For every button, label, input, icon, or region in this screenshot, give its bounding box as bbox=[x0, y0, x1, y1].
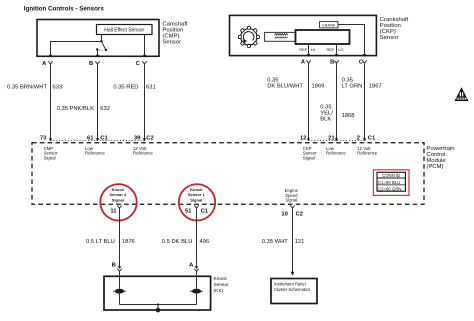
svg-text:10: 10 bbox=[281, 211, 287, 217]
svg-text:C2: C2 bbox=[146, 135, 153, 141]
pickup coil pole piece bbox=[265, 32, 296, 41]
svg-text:11: 11 bbox=[110, 209, 117, 215]
coil winding bbox=[275, 33, 288, 35]
svg-text:121: 121 bbox=[295, 239, 305, 245]
connector dotted line CKP group bbox=[309, 140, 365, 142]
PCM entry arrow 12 bbox=[307, 138, 310, 141]
PCM entry arrow 61 bbox=[96, 138, 99, 141]
common bus wire bbox=[120, 304, 197, 306]
value label 0.5 DK BLU 496 bbox=[162, 239, 209, 245]
svg-text:1868: 1868 bbox=[342, 113, 355, 119]
svg-text:C1=80 BLU: C1=80 BLU bbox=[378, 180, 400, 185]
svg-text:Ignition Controls - Sensors: Ignition Controls - Sensors bbox=[24, 5, 104, 12]
svg-text:HI: HI bbox=[311, 47, 315, 52]
value label 0.35 YEL/BLK 1868 bbox=[320, 105, 354, 123]
svg-text:REF: REF bbox=[327, 47, 336, 52]
CKP terminal B arrow bbox=[335, 54, 338, 57]
net label Low Reference bbox=[85, 146, 105, 156]
svg-text:Reference: Reference bbox=[357, 151, 377, 156]
PCM exit V at 51 bbox=[194, 205, 198, 208]
svg-text:Signal: Signal bbox=[303, 155, 315, 160]
wire 632 (B to PCM 61) bbox=[97, 64, 99, 139]
node: switch common junction bbox=[100, 40, 102, 42]
svg-text:Sensor: Sensor bbox=[214, 282, 230, 288]
svg-text:Reference: Reference bbox=[326, 151, 346, 156]
knock sensor element 1 bbox=[190, 289, 203, 294]
svg-text:(PCM): (PCM) bbox=[426, 164, 443, 170]
PCM entry arrow 2 bbox=[363, 138, 366, 141]
svg-text:1867: 1867 bbox=[369, 83, 382, 89]
PCM entry arrow 73 bbox=[49, 138, 52, 141]
PCM exit V at 11 bbox=[117, 205, 121, 208]
svg-text:Knock: Knock bbox=[214, 276, 228, 282]
knock sensor 2 text bbox=[109, 187, 127, 202]
CMP sensor name label bbox=[162, 21, 188, 45]
net label Low Reference bbox=[326, 146, 346, 156]
wire into KS box B bbox=[119, 271, 121, 289]
arrow into instrument cluster bbox=[291, 272, 295, 276]
wire: REF HI lead bbox=[308, 44, 310, 54]
svg-text:C1: C1 bbox=[100, 135, 108, 141]
KS entry arrow A bbox=[195, 266, 198, 269]
switch blade (open) bbox=[102, 41, 106, 50]
knock sensor 1 text bbox=[188, 187, 206, 202]
PCM exit V at 10 bbox=[290, 205, 294, 208]
knock sensor KS box bbox=[104, 276, 211, 310]
hall effect sensor box bbox=[97, 25, 153, 35]
value label 0.5 LT BLU 1876 bbox=[86, 239, 135, 245]
knock sensor 2 signal circle bbox=[100, 184, 136, 220]
svg-text:73: 73 bbox=[40, 135, 47, 141]
value label 0.35 WHT 121 bbox=[262, 239, 305, 245]
label REF HI bbox=[299, 47, 315, 52]
net label CMP Sensor Signal bbox=[44, 146, 58, 161]
value label 0.35 RED 631 bbox=[113, 85, 155, 91]
wire 633 (A to PCM 73) bbox=[50, 64, 52, 139]
svg-text:Sensor: Sensor bbox=[380, 35, 399, 41]
PCM module dashed box bbox=[32, 143, 424, 205]
connector V at B bbox=[95, 61, 99, 64]
svg-text:B: B bbox=[112, 263, 116, 269]
PCM entry arrow 39 bbox=[143, 138, 146, 141]
svg-text:C1: C1 bbox=[368, 135, 376, 141]
node: case ground dot bbox=[156, 308, 161, 313]
svg-text:21: 21 bbox=[328, 135, 335, 141]
CMP sensor outer box bbox=[37, 20, 159, 57]
connector V at CKP C bbox=[362, 60, 366, 63]
CMP terminal C arrow bbox=[143, 55, 146, 58]
svg-text:Cluster Schematics: Cluster Schematics bbox=[274, 287, 310, 292]
PCM entry arrow 21 bbox=[335, 138, 338, 141]
svg-text:51: 51 bbox=[185, 209, 192, 215]
svg-text:0.35 BRN/WHT: 0.35 BRN/WHT bbox=[7, 85, 47, 91]
instrument panel cluster box bbox=[271, 279, 317, 304]
svg-text:C2=80 GRN: C2=80 GRN bbox=[378, 187, 402, 192]
svg-text:0.35 PNK/BLK: 0.35 PNK/BLK bbox=[57, 106, 95, 112]
wire sensor 1 to bus bbox=[196, 294, 198, 305]
node: blade end bbox=[105, 49, 107, 51]
CKP terminal A arrow bbox=[307, 54, 310, 57]
svg-text:C1: C1 bbox=[201, 209, 209, 215]
svg-text:Sensor: Sensor bbox=[162, 39, 181, 45]
CMP terminal B arrow bbox=[96, 55, 99, 58]
wire: REF LO lead bbox=[336, 44, 338, 54]
svg-text:Signal: Signal bbox=[285, 198, 297, 203]
coil core hatch bbox=[275, 37, 288, 39]
wire 1867 (C to PCM 2) bbox=[364, 63, 366, 139]
connector dotted line CMP group bbox=[51, 140, 145, 142]
node: contact to terminal B bbox=[96, 48, 98, 50]
KS connector V A bbox=[194, 269, 198, 272]
value label 0.35 BRN/WHT 633 bbox=[7, 85, 62, 91]
wire 1868 (B to PCM 21) bbox=[336, 63, 338, 139]
knock sensor 1 signal circle bbox=[179, 184, 215, 220]
svg-text:39: 39 bbox=[134, 135, 141, 141]
svg-text:DK BLU/WHT: DK BLU/WHT bbox=[267, 84, 303, 90]
KS name label bbox=[214, 276, 230, 294]
svg-text:LO: LO bbox=[338, 47, 343, 52]
wire: hall sensor right lead to C bbox=[144, 35, 146, 56]
reluctor wheel (gear) bbox=[238, 26, 259, 47]
svg-text:B: B bbox=[330, 59, 334, 65]
connector V at CKP B bbox=[334, 60, 338, 63]
CKP sensor name label bbox=[380, 17, 409, 41]
svg-text:1869: 1869 bbox=[312, 83, 325, 89]
svg-text:Signal: Signal bbox=[44, 155, 56, 160]
svg-text:496: 496 bbox=[200, 239, 210, 245]
net label Engine Speed Signal bbox=[285, 188, 299, 203]
svg-text:CRANK: CRANK bbox=[322, 23, 336, 27]
svg-text:Reference: Reference bbox=[85, 151, 105, 156]
net label 12 Volt Reference bbox=[133, 146, 153, 156]
wire 1869 (A to PCM 12) bbox=[308, 63, 310, 139]
label REF LO bbox=[327, 47, 344, 52]
svg-text:0.5 LT BLU: 0.5 LT BLU bbox=[86, 239, 115, 245]
CKP sensor body bbox=[296, 30, 350, 44]
value label 0.35 LT GRN 1867 bbox=[342, 78, 382, 90]
connector V at CKP A bbox=[306, 60, 310, 63]
wire: contact down to B bbox=[97, 50, 99, 56]
connector V at C bbox=[142, 61, 146, 64]
CKP terminal C arrow bbox=[363, 54, 366, 57]
wire: switch common to A terminal bbox=[51, 42, 102, 56]
wire 496 (51 to KS A) bbox=[196, 208, 198, 266]
wire 121 (10 to cluster) bbox=[292, 208, 294, 272]
dotted actuation link bbox=[99, 49, 104, 51]
svg-text:0.5 DK BLU: 0.5 DK BLU bbox=[162, 239, 193, 245]
CKP sensor outer box bbox=[230, 15, 377, 55]
svg-text:633: 633 bbox=[53, 85, 63, 91]
svg-text:0.35 RED: 0.35 RED bbox=[113, 85, 138, 91]
svg-text:12: 12 bbox=[300, 135, 306, 141]
svg-text:2: 2 bbox=[357, 135, 360, 141]
svg-text:631: 631 bbox=[146, 85, 156, 91]
CRANK box bbox=[320, 22, 339, 28]
CMP terminal A arrow bbox=[49, 55, 52, 58]
svg-text:61: 61 bbox=[87, 135, 94, 141]
PCM name label bbox=[426, 146, 454, 170]
connector V at A bbox=[48, 61, 52, 64]
wire sensor 2 to bus bbox=[119, 294, 121, 305]
wire: hall sensor left lead bbox=[101, 35, 103, 42]
svg-text:REF: REF bbox=[299, 47, 308, 52]
warning triangle icon bbox=[455, 87, 469, 101]
svg-text:Reference: Reference bbox=[133, 151, 153, 156]
svg-text:Hall Effect Sensor: Hall Effect Sensor bbox=[104, 28, 144, 34]
net label CKP Sensor Signal bbox=[303, 146, 317, 161]
CONN ID table bbox=[373, 170, 409, 196]
svg-text:(KS): (KS) bbox=[214, 288, 224, 294]
rotation arrow bbox=[243, 32, 254, 41]
value label 0.35 PNK/BLK 632 bbox=[57, 106, 110, 112]
svg-text:C2: C2 bbox=[296, 211, 303, 217]
KS connector V B bbox=[117, 269, 121, 272]
KS entry arrow B bbox=[118, 266, 121, 269]
wire stub to case ground bbox=[157, 305, 159, 310]
svg-text:CONN ID: CONN ID bbox=[382, 173, 400, 178]
net label 12 Volt Reference bbox=[357, 146, 377, 156]
svg-text:BLK: BLK bbox=[320, 117, 331, 123]
wire 1876 (11 to KS B) bbox=[119, 208, 121, 266]
wire: CRANK to terminal C bbox=[338, 25, 365, 54]
wire 631 (C to PCM 39) bbox=[144, 64, 146, 139]
svg-text:B: B bbox=[89, 61, 93, 67]
wire into KS box A bbox=[196, 271, 198, 289]
node: bus junction bbox=[157, 303, 159, 305]
svg-text:Signal: Signal bbox=[112, 197, 124, 202]
svg-text:Signal: Signal bbox=[190, 197, 202, 202]
svg-text:LT GRN: LT GRN bbox=[342, 84, 363, 90]
knock sensor element 2 bbox=[113, 289, 126, 294]
svg-text:1876: 1876 bbox=[122, 239, 135, 245]
svg-text:0.35 WHT: 0.35 WHT bbox=[262, 239, 289, 245]
value label 0.35 DK BLU/WHT 1869 bbox=[267, 78, 324, 90]
instrument cluster label bbox=[274, 282, 310, 292]
svg-text:632: 632 bbox=[100, 106, 110, 112]
